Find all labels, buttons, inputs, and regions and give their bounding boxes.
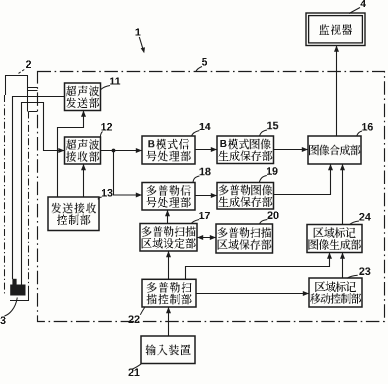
label 16 (357, 123, 373, 136)
label 1 arrow (136, 29, 147, 54)
wire 12 to 14 (101, 148, 143, 153)
label 2 (17, 61, 31, 75)
label 24 (349, 213, 371, 225)
label 21 (129, 364, 142, 376)
label 12 (100, 123, 112, 137)
junction dot (112, 149, 116, 153)
label 20 (260, 212, 279, 224)
wire 21 to 22 (166, 307, 171, 336)
wire 15 to 16 (274, 147, 309, 152)
box 16 image synthesizer (308, 136, 361, 164)
box 20 Doppler scan region store (216, 224, 273, 253)
box 19 Doppler image gen/store (217, 183, 274, 210)
wire 24 to 16 (340, 164, 345, 225)
wire 13 to 11 (58, 111, 87, 198)
label 17 (191, 212, 210, 224)
box 17 Doppler scan region setting (140, 224, 197, 252)
probe connector bars (28, 88, 38, 112)
label 15 (259, 122, 278, 137)
label 3 (1, 298, 18, 325)
wire 12 branch to 18 (114, 151, 143, 198)
label 13 (98, 189, 113, 199)
label 22 (129, 308, 145, 324)
wire 22 to 24 (186, 253, 333, 280)
wire 22 to 23 (196, 291, 309, 296)
monitor 4 (306, 13, 365, 46)
box 15 B-mode image gen/store (217, 136, 274, 164)
apparatus main body border 5 (38, 72, 385, 322)
wire 22 to 17 (166, 251, 171, 279)
box 13 tx/rx control (48, 197, 99, 231)
label 19 (259, 167, 277, 182)
box 23 region mark movement control (309, 278, 362, 307)
label 4 (349, 0, 366, 14)
label 18 (193, 168, 211, 183)
wire 16 to monitor 4 (334, 46, 339, 137)
wire probe to box 11 (13, 97, 65, 280)
wire probe to box 12 (22, 103, 65, 285)
wire 19 to 16 (274, 164, 334, 195)
wire 23 to 24 (340, 253, 345, 279)
box 22 Doppler scan control (142, 279, 196, 307)
wire 14 to 15 (195, 147, 217, 152)
wire 18 to 19 (195, 193, 217, 198)
transducer 3 (10, 279, 25, 296)
wire 17 to 18 (165, 210, 170, 224)
wire 13 to 12 (81, 164, 86, 197)
label 23 (347, 268, 370, 279)
box 11 ultrasonic transmitter (65, 83, 101, 111)
box 21 input device (141, 336, 195, 364)
box 24 region mark image generator (307, 225, 362, 253)
label 14 (191, 123, 210, 136)
box 18 Doppler signal processor (142, 183, 195, 211)
ultrasonic probe 2 outline (5, 76, 29, 301)
label 5 (196, 58, 207, 72)
label 11 (101, 78, 120, 90)
box 12 ultrasonic receiver (65, 137, 101, 164)
box 14 B-mode signal processor (142, 136, 195, 164)
wire 17 to 20 bidirectional (197, 235, 216, 240)
